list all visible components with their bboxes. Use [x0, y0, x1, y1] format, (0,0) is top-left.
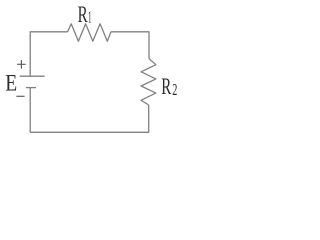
battery E bottom plate (short, -)	[26, 87, 36, 89]
plus sign	[17, 60, 26, 69]
svg-text:R: R	[78, 2, 89, 28]
battery E top plate (long, +)	[20, 75, 45, 77]
label R1	[78, 2, 89, 28]
resistor R2	[141, 59, 156, 105]
wire top-right	[111, 32, 149, 59]
wire left-bottom	[29, 88, 31, 133]
label E	[5, 70, 17, 96]
svg-text:1: 1	[88, 7, 92, 27]
svg-text:E: E	[5, 70, 17, 96]
minus sign	[16, 95, 24, 97]
label R2	[161, 74, 172, 100]
resistor R1	[68, 24, 111, 41]
wire right-bottom	[30, 105, 149, 132]
label R1 subscript 1	[88, 7, 92, 27]
svg-text:R: R	[161, 74, 172, 100]
label R2 subscript 2	[172, 80, 177, 98]
wire top-left: left rail top segment	[30, 32, 67, 76]
svg-text:2: 2	[172, 80, 177, 98]
